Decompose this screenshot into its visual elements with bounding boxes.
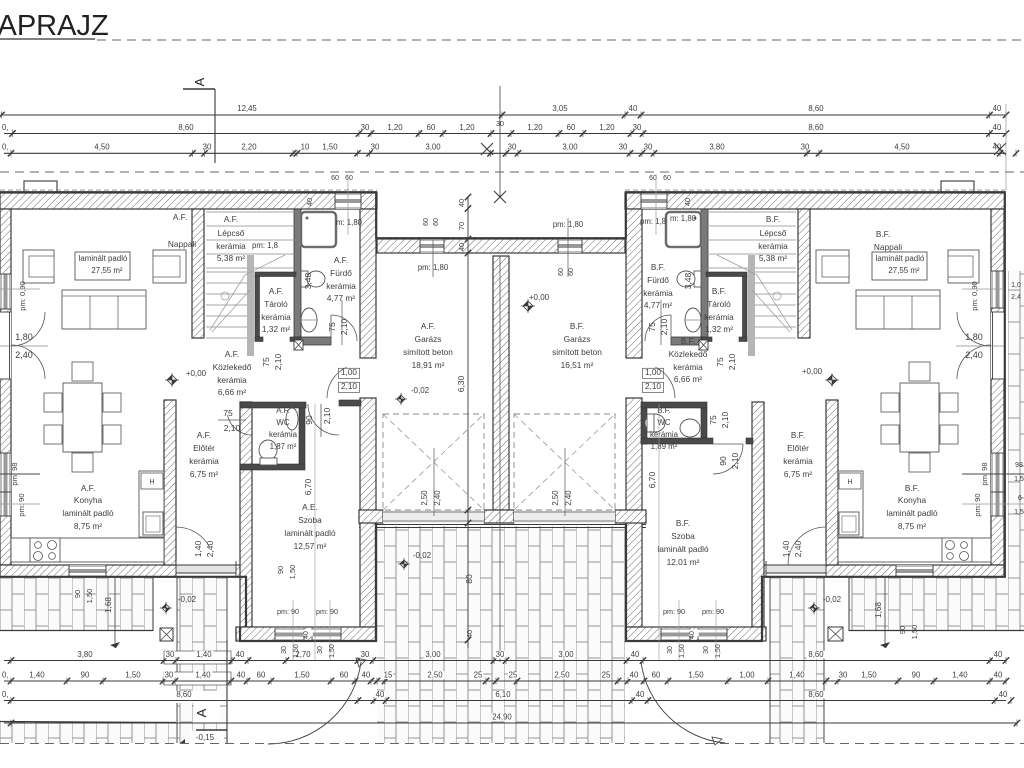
driveway paving center: [377, 526, 625, 743]
svg-text:simított beton: simított beton: [403, 347, 453, 357]
svg-text:Konyha: Konyha: [74, 495, 103, 505]
svg-text:80: 80: [464, 574, 474, 584]
svg-text:3,05: 3,05: [552, 104, 568, 113]
svg-text:40: 40: [631, 650, 640, 659]
svg-text:kerámia: kerámia: [783, 456, 813, 466]
bath A door square: [294, 340, 303, 350]
axis X mark center: [494, 191, 506, 203]
axis X mark right: [994, 143, 1006, 155]
svg-text:90: 90: [276, 566, 285, 574]
svg-text:8,60: 8,60: [808, 650, 824, 659]
entrance door A: [176, 561, 236, 577]
svg-text:kerámia: kerámia: [189, 456, 219, 466]
door arc garage A: [327, 367, 347, 398]
chimney top right: [941, 181, 974, 192]
svg-text:30: 30: [317, 646, 324, 654]
szoba A door arc: [308, 404, 339, 435]
svg-text:18,91 m²: 18,91 m²: [412, 360, 445, 370]
svg-text:4,50: 4,50: [94, 143, 110, 152]
svg-text:B.F.: B.F.: [712, 286, 726, 296]
svg-text:0,: 0,: [2, 123, 9, 132]
svg-text:Lépcső: Lépcső: [218, 228, 245, 238]
stairs A rail band: [247, 255, 254, 356]
door opening left wall: [0, 312, 11, 379]
svg-text:40: 40: [376, 690, 385, 699]
svg-text:1,50: 1,50: [688, 671, 704, 680]
svg-text:1,80: 1,80: [965, 332, 983, 342]
taroló A walls: [255, 272, 296, 277]
svg-text:25: 25: [509, 671, 518, 680]
basin B wc: [680, 419, 700, 437]
dishwasher A: [141, 473, 163, 489]
svg-text:kerámia: kerámia: [261, 312, 291, 322]
svg-text:30: 30: [508, 143, 517, 152]
svg-text:B.F.: B.F.: [651, 262, 665, 272]
svg-text:2,10: 2,10: [645, 382, 661, 391]
svg-text:1,5: 1,5: [1014, 476, 1024, 483]
svg-text:A.F.: A.F.: [225, 349, 239, 359]
svg-text:2,10: 2,10: [659, 318, 669, 335]
szoba B bottom wall: [626, 627, 766, 641]
stairs B rail band: [748, 255, 755, 356]
door arcs right wall: [957, 312, 991, 346]
svg-text:1,50: 1,50: [85, 589, 94, 604]
svg-text:0,: 0,: [2, 690, 9, 699]
bottom wall kitchen B: [762, 565, 1004, 577]
svg-text:Közlekedő: Közlekedő: [669, 349, 708, 359]
svg-text:+0,00: +0,00: [802, 367, 823, 376]
svg-text:Lépcső: Lépcső: [760, 228, 787, 238]
svg-text:pm: 90: pm: 90: [973, 493, 982, 516]
svg-text:90: 90: [898, 626, 907, 634]
stair-bath wall A: [294, 209, 301, 345]
svg-text:6,70: 6,70: [647, 471, 657, 488]
sofa B: [856, 290, 940, 329]
svg-text:A.F.: A.F.: [269, 286, 283, 296]
walkway label boxes: [164, 651, 231, 664]
window top wall A bath: [335, 193, 361, 209]
svg-text:40: 40: [237, 671, 246, 680]
svg-text:6,66 m²: 6,66 m²: [674, 374, 702, 384]
kitchen counter A bottom: [11, 538, 164, 562]
svg-text:pm: 90: pm: 90: [316, 607, 338, 616]
svg-text:30: 30: [633, 123, 642, 132]
windows left wall kitchen: [0, 453, 11, 492]
terrace paving right: [849, 578, 1024, 631]
svg-text:60: 60: [340, 671, 349, 680]
svg-text:30: 30: [371, 143, 380, 152]
chairs B: [909, 362, 930, 381]
svg-text:30: 30: [361, 650, 370, 659]
stairs A arrow: [210, 275, 245, 330]
window left wall nappali: [0, 274, 11, 309]
svg-text:2,10: 2,10: [273, 353, 283, 370]
gate arc B: [641, 662, 725, 743]
svg-text:A.F.: A.F.: [224, 214, 238, 224]
svg-text:Szoba: Szoba: [298, 515, 322, 525]
svg-text:2,10: 2,10: [322, 407, 332, 424]
svg-text:30: 30: [667, 646, 674, 654]
svg-text:pm: 1,8: pm: 1,8: [252, 241, 278, 250]
windows szoba A bottom: [275, 628, 304, 641]
coffee table / floor label box A: [75, 252, 130, 280]
dimension row 3 top: [4, 152, 1006, 154]
svg-text:B.F.: B.F.: [876, 229, 890, 239]
svg-text:kerámia: kerámia: [650, 430, 679, 439]
svg-text:2,10: 2,10: [727, 353, 737, 370]
svg-text:30: 30: [496, 650, 505, 659]
svg-text:1,50: 1,50: [715, 644, 722, 658]
dim 40 szoba B window: [689, 629, 699, 636]
szoba A bottom wall: [236, 627, 376, 641]
svg-text:30: 30: [165, 671, 174, 680]
svg-text:A.E.: A.E.: [302, 502, 318, 512]
svg-text:A.F.: A.F.: [421, 321, 435, 331]
wc B walls: [641, 402, 707, 408]
svg-text:4,77 m²: 4,77 m²: [327, 293, 355, 303]
dishwasher B: [839, 473, 861, 489]
svg-text:2,50: 2,50: [554, 671, 570, 680]
svg-text:1,50: 1,50: [329, 644, 336, 658]
svg-text:Szoba: Szoba: [671, 531, 695, 541]
svg-text:75: 75: [327, 322, 337, 332]
svg-text:60: 60: [663, 175, 671, 182]
wc A walls: [240, 402, 306, 408]
svg-text:+0,00: +0,00: [186, 369, 207, 378]
svg-text:B.F.: B.F.: [905, 483, 919, 493]
entrance door B: [766, 561, 826, 577]
svg-text:kerámia: kerámia: [269, 430, 298, 439]
svg-text:WC: WC: [657, 418, 670, 427]
dimension row 4 bottom overall: [4, 722, 1017, 724]
svg-text:B.F.: B.F.: [676, 518, 690, 528]
party wall between garages: [493, 256, 509, 510]
sink A: [143, 512, 163, 535]
garage B door dashed box: [514, 414, 615, 510]
svg-text:simított beton: simított beton: [552, 347, 602, 357]
svg-text:24,90: 24,90: [492, 713, 512, 722]
armchair A1: [23, 250, 54, 283]
svg-text:8,60: 8,60: [176, 690, 192, 699]
svg-text:30: 30: [361, 123, 370, 132]
svg-text:40: 40: [993, 104, 1002, 113]
svg-text:40: 40: [683, 198, 692, 206]
central wall B (unit B / garage B): [626, 209, 642, 358]
svg-text:kerámia: kerámia: [758, 241, 788, 251]
toilet B wc: [645, 414, 665, 432]
windows right wall kitchen: [991, 453, 1004, 492]
insulation dash line top: [0, 189, 377, 191]
toilet A wc: [259, 440, 277, 460]
stairs B treads: [707, 211, 796, 213]
garage door thresholds: [383, 510, 484, 523]
svg-text:2,40: 2,40: [965, 350, 983, 360]
section line bottom: [226, 640, 228, 743]
svg-text:1,50: 1,50: [294, 671, 310, 680]
garage A door dashed box: [383, 414, 484, 510]
svg-text:WC: WC: [276, 418, 289, 427]
building outer outline: [0, 192, 1005, 565]
svg-text:98: 98: [1015, 462, 1023, 469]
walkway paving A: [177, 578, 227, 743]
svg-text:Nappali: Nappali: [168, 239, 196, 249]
svg-text:1,50: 1,50: [322, 143, 338, 152]
svg-text:H: H: [847, 479, 852, 486]
svg-text:A.F.: A.F.: [81, 483, 95, 493]
bathtub A: [301, 212, 336, 247]
svg-text:kerámia: kerámia: [704, 312, 734, 322]
door arcs left wall: [11, 312, 45, 346]
right outer wall: [991, 209, 1004, 565]
svg-text:40: 40: [236, 650, 245, 659]
svg-text:1,00: 1,00: [341, 368, 357, 377]
szoba A left wall: [240, 402, 252, 627]
svg-text:Nappali: Nappali: [874, 242, 902, 252]
dimension row 2 top: [4, 133, 1006, 135]
svg-text:40: 40: [994, 650, 1003, 659]
svg-text:-0,02: -0,02: [823, 595, 842, 604]
top wall unit A: [0, 193, 377, 209]
svg-text:40: 40: [994, 671, 1003, 680]
svg-text:40: 40: [457, 199, 466, 207]
bath A bottom wall: [294, 337, 331, 345]
svg-text:Tároló: Tároló: [707, 299, 731, 309]
bath B bottom wall: [671, 337, 708, 345]
svg-text:30: 30: [839, 671, 848, 680]
svg-text:3,00: 3,00: [558, 650, 574, 659]
bottom dashed property line: [0, 743, 1024, 745]
svg-text:8,60: 8,60: [178, 123, 194, 132]
sofa A: [62, 290, 146, 329]
svg-text:40: 40: [362, 671, 371, 680]
svg-text:laminált padló: laminált padló: [876, 254, 925, 263]
svg-text:40: 40: [999, 690, 1008, 699]
svg-text:12,45: 12,45: [237, 104, 257, 113]
svg-text:75: 75: [647, 322, 657, 332]
svg-text:-0,15: -0,15: [196, 733, 215, 742]
svg-text:B.F.: B.F.: [570, 321, 584, 331]
svg-text:A.F.: A.F.: [276, 406, 290, 415]
svg-text:2,50: 2,50: [420, 490, 429, 506]
svg-text:3,48: 3,48: [683, 272, 693, 289]
svg-text:H: H: [149, 479, 154, 486]
dining table B: [900, 383, 939, 452]
svg-text:1,89 m²: 1,89 m²: [651, 442, 678, 451]
bath A door arc: [331, 315, 357, 341]
svg-text:1,40: 1,40: [193, 540, 203, 557]
svg-text:6,75 m²: 6,75 m²: [784, 469, 812, 479]
stove B: [942, 538, 972, 562]
taroló B walls: [706, 272, 747, 277]
svg-text:27,55 m²: 27,55 m²: [888, 266, 920, 275]
svg-text:1,40: 1,40: [789, 671, 805, 680]
dimension row 2 bottom: [4, 680, 1006, 682]
svg-text:1,50: 1,50: [861, 671, 877, 680]
kitchen A right wall: [164, 400, 176, 565]
svg-text:30: 30: [644, 143, 653, 152]
window top wall B bath: [641, 193, 667, 209]
kitchen B left wall: [826, 400, 838, 565]
window kitchen A bottom: [69, 565, 106, 577]
svg-text:60: 60: [423, 218, 430, 226]
toilet B bath: [694, 271, 701, 287]
svg-text:pm: 90: pm: 90: [702, 607, 724, 616]
svg-text:Előtér: Előtér: [787, 443, 809, 453]
bath B door arc: [645, 315, 671, 341]
stairs B arrow: [757, 275, 792, 330]
svg-text:12,57 m²: 12,57 m²: [294, 541, 327, 551]
svg-text:12,01 m²: 12,01 m²: [667, 557, 700, 567]
svg-text:Garázs: Garázs: [415, 334, 442, 344]
nappali-stair wall A: [192, 209, 204, 338]
svg-text:2,20: 2,20: [241, 143, 257, 152]
svg-text:25: 25: [474, 671, 483, 680]
svg-text:40: 40: [689, 631, 696, 639]
svg-text:Tároló: Tároló: [264, 299, 288, 309]
svg-text:pm: 0,90: pm: 0,90: [970, 281, 979, 311]
svg-text:25: 25: [602, 671, 611, 680]
chairs A: [72, 362, 93, 381]
svg-text:8,60: 8,60: [808, 690, 824, 699]
svg-text:6,75 m²: 6,75 m²: [190, 469, 218, 479]
svg-text:ALAPRAJZ: ALAPRAJZ: [0, 10, 109, 42]
svg-text:B.F.: B.F.: [791, 430, 805, 440]
svg-text:Közlekedő: Közlekedő: [213, 362, 252, 372]
szoba B right wall: [752, 402, 764, 627]
svg-text:B.F.: B.F.: [766, 214, 780, 224]
dimension row 1 top: [1, 114, 1006, 116]
svg-text:2,10: 2,10: [224, 423, 241, 433]
svg-text:1,68: 1,68: [104, 597, 113, 613]
dim 40 szoba A window: [303, 629, 313, 636]
svg-text:Garázs: Garázs: [564, 334, 591, 344]
svg-text:8,60: 8,60: [808, 123, 824, 132]
kitchen counter A right: [139, 471, 164, 537]
dim 1,68 terrace B: [884, 578, 886, 648]
svg-text:30: 30: [801, 143, 810, 152]
szoba B door arc: [713, 444, 743, 474]
door label garage B boxed: [642, 368, 663, 378]
svg-text:4,50: 4,50: [894, 143, 910, 152]
svg-text:laminált padló: laminált padló: [284, 528, 336, 538]
level marker -0,02 driveway: [400, 560, 408, 568]
svg-text:kerámia: kerámia: [217, 375, 247, 385]
windows szoba B bottom: [661, 628, 690, 641]
svg-text:A.F.: A.F.: [197, 430, 211, 440]
svg-text:1,50: 1,50: [125, 671, 141, 680]
svg-text:30: 30: [166, 650, 175, 659]
bathtub B: [666, 212, 701, 247]
svg-text:kerámia: kerámia: [326, 281, 356, 291]
svg-text:1,5: 1,5: [1014, 509, 1024, 516]
svg-text:Konyha: Konyha: [898, 495, 927, 505]
level marker -0,02 terrace B: [810, 604, 818, 612]
svg-text:1,68: 1,68: [874, 602, 883, 618]
svg-text:30: 30: [281, 646, 288, 654]
svg-text:2,50: 2,50: [551, 490, 560, 506]
svg-text:-0,02: -0,02: [411, 386, 430, 395]
svg-text:2,10: 2,10: [341, 382, 357, 391]
svg-text:0,: 0,: [2, 143, 9, 152]
bottom wall kitchen A: [0, 565, 246, 577]
svg-text:-0,02: -0,02: [413, 551, 432, 560]
svg-text:laminált padló: laminált padló: [657, 544, 709, 554]
svg-text:10: 10: [301, 143, 310, 152]
svg-text:1,50: 1,50: [293, 644, 300, 658]
svg-text:Fürdő: Fürdő: [330, 268, 352, 278]
svg-text:60: 60: [345, 175, 353, 182]
svg-text:40: 40: [993, 123, 1002, 132]
svg-text:1,50: 1,50: [910, 625, 919, 640]
svg-text:Fürdő: Fürdő: [647, 275, 669, 285]
svg-text:3,80: 3,80: [709, 143, 725, 152]
svg-text:70: 70: [457, 222, 466, 230]
svg-text:60: 60: [568, 268, 575, 276]
window right wall nappali: [991, 271, 1004, 308]
terrace door arc A: [176, 527, 210, 548]
scraper grid square A: [160, 628, 173, 641]
axis line center top: [499, 86, 501, 197]
svg-text:5,38 m²: 5,38 m²: [759, 253, 787, 263]
svg-text:90: 90: [718, 456, 728, 466]
svg-text:laminált padló: laminált padló: [886, 508, 938, 518]
svg-text:pm: 90: pm: 90: [17, 493, 26, 516]
svg-text:pm: 0,90: pm: 0,90: [18, 281, 27, 311]
kitchen counter B left: [838, 471, 863, 537]
svg-text:4,77 m²: 4,77 m²: [644, 300, 672, 310]
svg-text:75: 75: [708, 415, 718, 425]
level marker -0,02 garage A: [397, 395, 405, 403]
level marker +0,00 corridor A: [167, 375, 177, 385]
svg-text:1,32 m²: 1,32 m²: [705, 324, 733, 334]
svg-text:40: 40: [457, 243, 466, 251]
svg-text:2,50: 2,50: [427, 671, 443, 680]
door opening right wall: [991, 312, 1004, 379]
door arc garage B: [655, 367, 675, 398]
svg-text:kerámia: kerámia: [643, 288, 673, 298]
svg-text:1,20: 1,20: [387, 123, 403, 132]
party wall axis line: [499, 256, 501, 524]
bath B door square: [699, 340, 708, 350]
svg-text:6,70: 6,70: [303, 478, 313, 495]
svg-text:40: 40: [629, 104, 638, 113]
svg-text:1,20: 1,20: [599, 123, 615, 132]
svg-text:30: 30: [703, 646, 710, 654]
stove A: [30, 538, 60, 562]
chimney top left: [24, 181, 57, 192]
svg-text:1,40: 1,40: [29, 671, 45, 680]
svg-text:1,80: 1,80: [15, 332, 33, 342]
driveway edge border: [359, 524, 646, 526]
right edge paving strip: [1008, 271, 1024, 578]
svg-text:90: 90: [912, 671, 921, 680]
gate arc A: [268, 662, 361, 744]
svg-text:A: A: [194, 708, 209, 717]
armchair B1: [948, 250, 979, 283]
terrace paving left: [0, 578, 153, 631]
svg-text:2,40: 2,40: [15, 350, 33, 360]
svg-text:6,66 m²: 6,66 m²: [218, 387, 246, 397]
svg-text:3,00: 3,00: [425, 143, 441, 152]
dining table A: [63, 383, 102, 452]
svg-text:60: 60: [433, 218, 440, 226]
svg-text:60: 60: [558, 268, 565, 276]
svg-text:0,: 0,: [2, 671, 9, 680]
nappali-stair wall B: [798, 209, 810, 338]
svg-text:1,0: 1,0: [1011, 282, 1021, 289]
svg-text:15: 15: [384, 671, 393, 680]
svg-text:m: 1,80: m: 1,80: [670, 214, 697, 223]
